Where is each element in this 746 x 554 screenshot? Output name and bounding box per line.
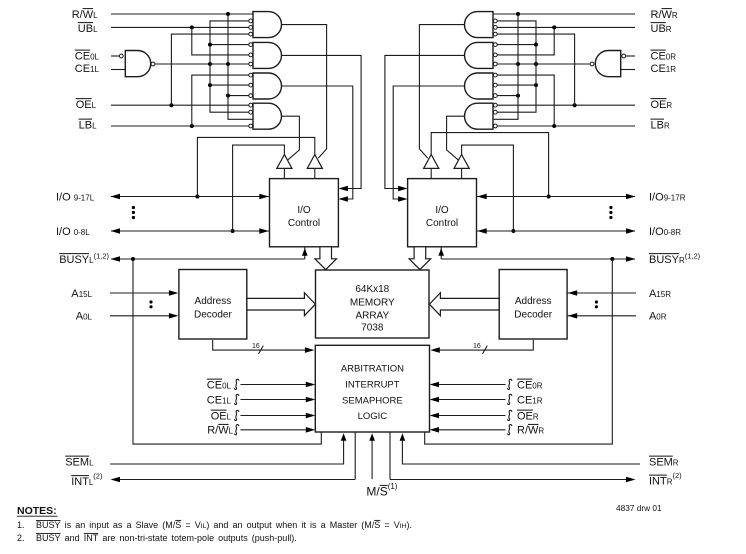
ellipsis between I/O lines right: [609, 206, 612, 219]
and-gate U1 (left read upper): [249, 12, 282, 38]
svg-text:CE: CE: [517, 379, 532, 391]
wire I/O 0-8L to buffer Z1 apex: [233, 145, 285, 231]
wire A15R into decoder: [568, 290, 636, 296]
svg-text:Address: Address: [195, 296, 232, 307]
wire OER to gate U8 input 1: [497, 104, 635, 106]
svg-text:16: 16: [473, 343, 481, 350]
wire V2R bus down from R/WR: [517, 14, 519, 64]
wire V2R down to gate U8 input 3: [493, 64, 518, 119]
box left Address Decoder: [179, 270, 247, 340]
wire M/S input: [369, 433, 375, 479]
svg-text:W: W: [218, 425, 229, 437]
ellipsis between address lines left: [149, 300, 152, 308]
svg-text:MEMORY: MEMORY: [350, 297, 395, 308]
wire OEL to gate U4 input 1: [111, 104, 249, 106]
svg-text:UB: UB: [651, 23, 666, 35]
svg-text:are non-tri-state totem-pole o: are non-tri-state totem-pole outputs (pu…: [98, 533, 297, 543]
svg-text:I/O: I/O: [649, 226, 664, 238]
wire CE1L stub to NAND G1: [111, 69, 125, 71]
svg-text:CE: CE: [651, 50, 666, 62]
wire U4 output to buffer Z1 enable: [282, 116, 300, 160]
svg-text:Decoder: Decoder: [194, 310, 232, 321]
wire INTR output: [390, 433, 636, 483]
node LBR junction: [552, 124, 556, 128]
bus arrow left decoder to memory: [247, 293, 316, 316]
svg-text:0L: 0L: [83, 313, 92, 322]
wire UBL branch down to gate U2 input 2: [192, 27, 249, 55]
label NOTES heading: [17, 505, 58, 517]
svg-text:OE: OE: [651, 99, 667, 111]
svg-text:R: R: [538, 427, 544, 436]
wire CE1L into arbitration: [234, 394, 315, 404]
wire U7 output to right I/O control (arrow): [393, 86, 464, 202]
node R/WL junction to V2 bus: [226, 12, 230, 16]
svg-text:R: R: [666, 101, 672, 110]
svg-text:(1,2): (1,2): [94, 251, 110, 260]
svg-text:SEM: SEM: [65, 456, 89, 468]
svg-text:(2): (2): [93, 471, 103, 480]
svg-text:9-17L: 9-17L: [74, 193, 95, 202]
node V1R junction gate U6: [534, 43, 538, 47]
wire I/O 9-17R bidirectional: [477, 194, 636, 200]
wire CE bus V1 to gate U3 input 2: [210, 84, 249, 86]
note 1: [17, 520, 412, 530]
wire INTL output: [111, 433, 356, 483]
svg-text:L: L: [229, 427, 234, 436]
bus arrow right decoder to memory: [429, 293, 499, 316]
svg-text:2.: 2.: [17, 533, 25, 543]
wire CE bus V1 down to gate U4 input 2: [210, 64, 249, 112]
svg-text:0R: 0R: [656, 313, 666, 322]
svg-text:INT: INT: [84, 533, 99, 543]
svg-text:0L: 0L: [90, 52, 99, 61]
svg-text:0L: 0L: [222, 381, 231, 390]
svg-text:L: L: [93, 11, 98, 20]
wire U5 output to buffer Z4 enable: [419, 25, 464, 159]
box left I/O Control: [270, 179, 339, 247]
svg-text:(1): (1): [388, 482, 398, 491]
and-gate U5 (right read upper): [465, 12, 498, 38]
node UBR junction: [552, 25, 556, 29]
svg-text:0-8R: 0-8R: [664, 228, 682, 237]
svg-text:I/O: I/O: [297, 205, 311, 216]
wire V2R to gate U7 input 3: [497, 95, 518, 97]
svg-text:= V: = V: [380, 520, 399, 530]
wire A0R into decoder: [568, 313, 636, 319]
wire U8 output to buffer Z3 enable: [447, 116, 465, 160]
wire CE bus V1 up to gate U1 input 2: [210, 21, 249, 64]
wire U1 output to buffer Z2 enable: [282, 25, 327, 159]
svg-text:Address: Address: [515, 296, 552, 307]
svg-text:R: R: [533, 412, 539, 421]
box right Address Decoder: [499, 270, 567, 340]
svg-text:LB: LB: [79, 119, 92, 131]
svg-text:0-8L: 0-8L: [74, 228, 91, 237]
svg-text:0R: 0R: [532, 381, 542, 390]
svg-text:M/: M/: [366, 485, 380, 499]
svg-text:R: R: [673, 458, 679, 467]
svg-text:1.: 1.: [17, 520, 25, 530]
svg-text:7038: 7038: [361, 323, 384, 334]
svg-text:CE: CE: [75, 50, 90, 62]
svg-text:INT: INT: [71, 476, 89, 488]
svg-text:Control: Control: [426, 218, 458, 229]
svg-text:S: S: [380, 485, 388, 499]
node V2R junction: [516, 62, 520, 66]
wire LBR to gate U8 input 4: [497, 125, 635, 127]
bus 16 left decoder to arbitration: [213, 340, 315, 354]
svg-text:I/O: I/O: [56, 226, 74, 238]
and-gate U4 (left read lower): [249, 103, 282, 129]
wire SEMR into arbitration: [400, 433, 640, 464]
wire I/O 9-17R to buffer Z4 apex: [431, 133, 548, 197]
wire V2 down to gate U4 input 3: [228, 64, 253, 119]
wire UBR branch down to gate U6 input 2: [497, 27, 554, 55]
wire NAND G2 output to gate U6 input 3: [497, 63, 590, 65]
svg-text:SEMAPHORE: SEMAPHORE: [342, 396, 403, 407]
svg-text:OE: OE: [517, 410, 533, 422]
wire OER branch up to gate U5 input 4: [497, 34, 574, 105]
buffer Z2 (left upper byte): [307, 155, 322, 179]
svg-text:CE: CE: [651, 63, 666, 75]
bus arrow right I/O control to memory: [409, 247, 431, 270]
svg-text:INT: INT: [649, 475, 667, 487]
svg-text:CE: CE: [207, 379, 222, 391]
box right I/O Control: [408, 179, 477, 247]
wire CE0R stub to NAND G2: [626, 55, 635, 57]
bus arrow left I/O control to memory: [315, 247, 337, 270]
svg-text:ARBITRATION: ARBITRATION: [341, 364, 404, 375]
wire I/O 0-8R bidirectional: [477, 228, 636, 234]
node CE bus junction on V1R: [534, 62, 538, 66]
svg-text:BUSY: BUSY: [36, 520, 61, 530]
buffer Z3 (right lower byte): [454, 155, 469, 179]
node UBL junction: [190, 25, 194, 29]
wire BUSYL down to arbitration: [133, 259, 321, 444]
svg-text:SEM: SEM: [649, 456, 673, 468]
svg-text:UB: UB: [78, 23, 93, 35]
and-gate U7 (right write lower): [465, 73, 498, 99]
nand-gate G1L (CE0L/CE1L decode): [119, 51, 155, 77]
svg-text:CE: CE: [207, 394, 222, 406]
wire CE1R into arbitration: [430, 394, 512, 404]
wire CE bus V1R down to gate U8 input 2: [497, 64, 536, 112]
svg-text:INTERRUPT: INTERRUPT: [345, 380, 400, 391]
node BUSYL junction: [131, 257, 135, 261]
node V1R junction gate U7: [534, 83, 538, 87]
svg-text:I/O: I/O: [649, 191, 664, 203]
svg-text:OE: OE: [76, 99, 92, 111]
nand-gate G2R (CE0R/CE1R decode): [590, 51, 626, 77]
wire BUSYL up into I/O control: [302, 248, 308, 260]
svg-text:1L: 1L: [222, 396, 231, 405]
wire V2 to gate U3 input 3: [228, 95, 249, 97]
node V2R junction gate U7: [516, 94, 520, 98]
svg-text:0R: 0R: [666, 52, 676, 61]
wire CE0L into arbitration: [234, 379, 315, 389]
node I/O 9-17R junction: [547, 195, 551, 199]
wire I/O 0-8R to buffer Z3 apex: [462, 145, 514, 231]
node I/O 0-8L junction: [231, 229, 235, 233]
svg-text:L: L: [89, 458, 94, 467]
svg-text:L: L: [93, 25, 98, 34]
wire CE bus V1 to gate U2 input 1: [210, 44, 249, 46]
node V1 junction gate U3: [208, 83, 212, 87]
svg-text:15R: 15R: [656, 290, 671, 299]
svg-text:16: 16: [252, 343, 260, 350]
buffer Z1 (left lower byte): [277, 155, 292, 179]
wire U2 output to I/O control (arrow): [282, 55, 362, 191]
svg-text:BUSY: BUSY: [59, 254, 90, 266]
node V2 junction gate U3: [226, 94, 230, 98]
node LBL junction: [190, 124, 194, 128]
wire LBL branch up to gate U3 input 1: [192, 75, 249, 126]
svg-text:1R: 1R: [532, 396, 542, 405]
svg-text:64Kx18: 64Kx18: [355, 284, 389, 295]
wire LBR branch up to gate U7 input 1: [497, 75, 554, 126]
svg-text:15L: 15L: [79, 290, 93, 299]
and-gate U8 (right read lower): [465, 103, 498, 129]
svg-text:(2): (2): [673, 471, 683, 480]
wire I/O 9-17L bidirectional: [111, 194, 270, 200]
svg-text:) and an output when it is a M: ) and an output when it is a Master (M/: [206, 520, 374, 530]
svg-text:(1,2): (1,2): [685, 251, 701, 260]
svg-text:and: and: [61, 533, 84, 543]
wire CE1R stub to NAND G2: [621, 69, 635, 71]
wire SEML into arbitration: [110, 433, 346, 464]
node BUSYR junction: [610, 257, 614, 261]
wire CE bus V1R to gate U7 input 2: [497, 84, 536, 86]
svg-text:W: W: [83, 9, 94, 21]
node I/O 9-17L junction: [195, 195, 199, 199]
svg-text:1R: 1R: [666, 65, 676, 74]
wire BUSYL line: [111, 256, 305, 262]
node R/WR junction to V2R bus: [516, 12, 520, 16]
wire NAND G1 output to gate U2 input 3: [155, 63, 249, 65]
wire I/O 9-17L to buffer Z2 apex: [197, 137, 314, 196]
svg-text:BUSY: BUSY: [36, 533, 61, 543]
node V2 junction: [226, 62, 230, 66]
svg-text:L: L: [92, 121, 97, 130]
svg-text:Decoder: Decoder: [514, 310, 552, 321]
node OEL junction: [169, 103, 173, 107]
svg-text:BUSY: BUSY: [649, 254, 680, 266]
wire CE bus V1R to gate U6 input 1: [497, 44, 536, 46]
wire OEL branch up to gate U1 input 4: [171, 34, 248, 105]
svg-text:9-17R: 9-17R: [664, 193, 686, 202]
wire R/WR into arbitration: [430, 425, 512, 435]
node V1 junction gate U2: [208, 43, 212, 47]
and-gate U6 (right write upper): [465, 42, 498, 68]
wire R/WR to gate U5 input 1: [493, 13, 635, 15]
svg-text:W: W: [528, 425, 539, 437]
wire BUSYR up into I/O control: [438, 248, 444, 260]
svg-text:OE: OE: [211, 410, 227, 422]
svg-text:L: L: [227, 412, 232, 421]
ellipsis between I/O lines left: [132, 206, 135, 219]
wire CE0L stub to NAND G1: [111, 55, 119, 57]
wire R/WL to gate U1 input 1: [111, 13, 253, 15]
wire BUSYR line: [441, 256, 635, 262]
node I/O 0-8R junction: [511, 229, 515, 233]
bus 16 right decoder to arbitration: [430, 340, 533, 354]
and-gate U3 (left write lower): [249, 73, 282, 99]
svg-text:LB: LB: [651, 119, 664, 131]
box ARBITRATION INTERRUPT SEMAPHORE LOGIC: [315, 345, 429, 432]
wire A0L into decoder: [110, 313, 178, 319]
node OER junction: [573, 103, 577, 107]
svg-text:L: L: [92, 101, 97, 110]
svg-text:1L: 1L: [90, 65, 99, 74]
svg-text:4837 drw 01: 4837 drw 01: [616, 503, 662, 513]
wire A15L into decoder: [110, 290, 178, 296]
note 2: [17, 533, 297, 543]
wire OER into arbitration: [430, 410, 512, 420]
wire R/WL into arbitration: [234, 425, 315, 435]
node CE bus junction on V1: [208, 62, 212, 66]
svg-text:LOGIC: LOGIC: [358, 411, 388, 422]
svg-text:is an input as a Slave (M/: is an input as a Slave (M/: [61, 520, 176, 530]
wire V2 bus down from R/WL: [227, 14, 229, 64]
wire U6 output to right I/O control (arrow): [385, 55, 465, 191]
svg-text:).: ).: [406, 520, 412, 530]
svg-text:R: R: [664, 121, 670, 130]
and-gate U2 (left write upper): [249, 42, 282, 68]
svg-text:NOTES:: NOTES:: [17, 505, 57, 517]
wire OEL into arbitration: [234, 410, 315, 420]
svg-text:CE: CE: [75, 63, 90, 75]
wire BUSYR down to arbitration: [425, 259, 613, 444]
svg-text:I/O: I/O: [435, 205, 449, 216]
svg-text:I/O: I/O: [56, 191, 74, 203]
wire UBR to gate U5 input 3: [497, 26, 635, 28]
buffer Z4 (right upper byte): [424, 155, 439, 179]
svg-text:ARRAY: ARRAY: [355, 311, 389, 322]
wire CE bus V1R up to gate U5 input 2: [497, 21, 536, 64]
svg-text:= V: = V: [181, 520, 200, 530]
box 64Kx18 MEMORY ARRAY 7038: [316, 270, 430, 338]
svg-text:R: R: [672, 11, 678, 20]
svg-text:R: R: [666, 25, 672, 34]
wire UBL to gate U1 input 3: [111, 26, 249, 28]
svg-text:CE: CE: [517, 394, 532, 406]
wire CE0R into arbitration: [430, 379, 512, 389]
wire U3 output to I/O control (arrow): [282, 86, 353, 202]
wire I/O 0-8L bidirectional: [111, 228, 270, 234]
svg-text:Control: Control: [288, 218, 320, 229]
svg-text:W: W: [662, 9, 673, 21]
ellipsis between address lines right: [595, 300, 598, 308]
wire LBL to gate U4 input 4: [111, 125, 249, 127]
